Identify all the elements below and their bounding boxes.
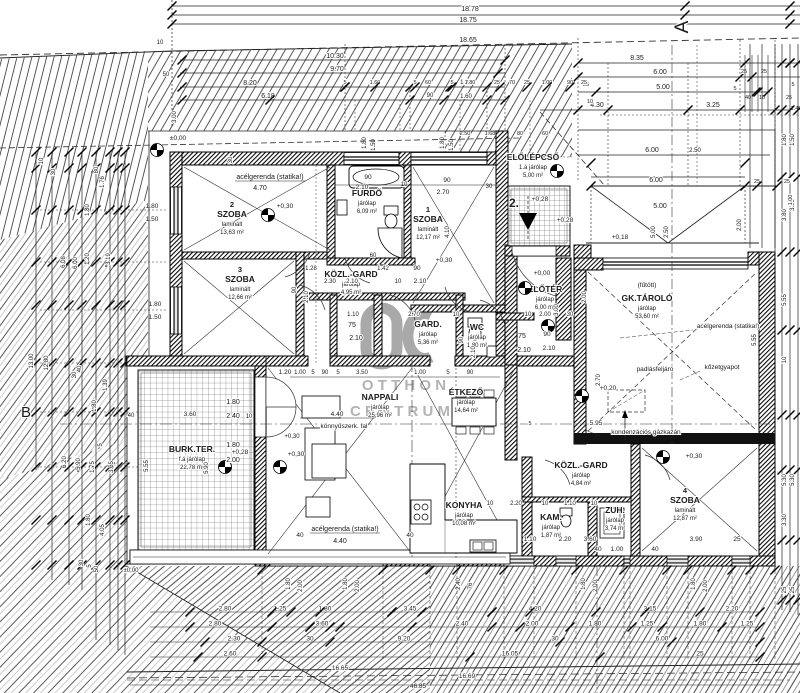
svg-text:1.76: 1.76 — [100, 176, 106, 188]
svg-text:2.30: 2.30 — [228, 636, 241, 643]
wall west exterior — [170, 152, 182, 366]
gk dashed cross diagonals — [588, 272, 757, 431]
svg-text:22,78 m²: 22,78 m² — [180, 465, 204, 471]
bath wc — [384, 206, 398, 215]
svg-text:1.80: 1.80 — [149, 301, 162, 308]
svg-text:f.á járólap: f.á járólap — [179, 457, 206, 463]
svg-text:4.40: 4.40 — [333, 538, 347, 545]
svg-text:90: 90 — [443, 177, 451, 184]
door arc room2 — [285, 252, 310, 277]
wall pier top right — [487, 152, 508, 165]
svg-text:60: 60 — [425, 80, 431, 86]
svg-text:járólap: járólap — [456, 400, 476, 406]
svg-text:ÉTKEZŐ: ÉTKEZŐ — [449, 386, 484, 397]
svg-text:4.05: 4.05 — [100, 524, 106, 536]
wall gk ne pier — [748, 252, 775, 265]
svg-text:járólap: járólap — [454, 513, 474, 519]
svg-text:1.50: 1.50 — [449, 139, 455, 151]
survey marker 7 — [576, 390, 589, 403]
svg-text:1.39: 1.39 — [103, 379, 109, 391]
arrow padlasfeljaro — [624, 415, 626, 440]
svg-text:ZUH.: ZUH. — [605, 505, 625, 515]
svg-text:1.00: 1.00 — [611, 546, 624, 553]
svg-text:1.50: 1.50 — [371, 139, 377, 151]
svg-text:2.00: 2.00 — [226, 457, 240, 464]
svg-text:75: 75 — [518, 333, 526, 340]
svg-text:1.75: 1.75 — [90, 461, 96, 473]
svg-text:25: 25 — [733, 536, 741, 543]
svg-text:5: 5 — [791, 82, 794, 88]
svg-text:2.40: 2.40 — [226, 413, 240, 420]
svg-text:8.35: 8.35 — [630, 55, 644, 62]
svg-text:2.00: 2.00 — [526, 621, 539, 628]
svg-text:2.00: 2.00 — [298, 580, 304, 592]
svg-text:5.00: 5.00 — [656, 84, 670, 91]
svg-text:2.10: 2.10 — [543, 345, 556, 352]
svg-text:+0,18: +0,18 — [612, 234, 629, 241]
svg-text:80: 80 — [94, 166, 100, 173]
svg-text:2.30: 2.30 — [324, 279, 336, 285]
svg-text:kőzetgyapot: kőzetgyapot — [704, 364, 739, 371]
svg-text:2.: 2. — [509, 196, 519, 210]
svg-text:KONYHA: KONYHA — [446, 500, 483, 510]
svg-text:kondenzációs gázkazán: kondenzációs gázkazán — [611, 429, 681, 436]
window top room1 — [411, 153, 487, 165]
svg-text:25: 25 — [786, 95, 792, 101]
svg-text:2.00: 2.00 — [593, 580, 599, 592]
svg-text:A: A — [672, 20, 693, 33]
svg-text:25: 25 — [494, 80, 500, 86]
wc2 toilet — [468, 318, 482, 327]
svg-text:3.60: 3.60 — [584, 536, 597, 543]
room2 cross diagonals — [184, 167, 330, 250]
wall bath/room1 divider — [404, 165, 411, 265]
svg-text:3.80: 3.80 — [782, 209, 788, 221]
svg-text:12,17 m²: 12,17 m² — [416, 235, 440, 241]
svg-text:1.25: 1.25 — [741, 621, 754, 628]
svg-text:4.40: 4.40 — [331, 411, 344, 418]
wall kam/zuh divider — [588, 502, 597, 556]
svg-text:5.30: 5.30 — [790, 474, 796, 486]
wall gard north — [304, 293, 465, 300]
wall room1 south — [411, 305, 508, 312]
wall corridor south of eloter — [496, 313, 534, 320]
svg-text:ELŐLÉPCSŐ: ELŐLÉPCSŐ — [507, 151, 560, 162]
svg-text:10.30: 10.30 — [326, 53, 344, 60]
svg-text:járólap: járólap — [541, 525, 561, 531]
svg-text:25: 25 — [741, 69, 747, 75]
top dimension chain 18.78 / 18.75 — [172, 5, 800, 7]
svg-text:1.00: 1.00 — [294, 370, 306, 376]
svg-text:járólap: járólap — [637, 306, 657, 312]
wall gard west — [374, 295, 382, 366]
terrace sw pier — [130, 550, 142, 564]
svg-text:1.80: 1.80 — [465, 80, 476, 86]
svg-text:3.60: 3.60 — [184, 411, 197, 418]
svg-text:16.69: 16.69 — [459, 673, 476, 680]
svg-text:SZOBA: SZOBA — [217, 209, 247, 219]
svg-text:járólap: járólap — [605, 518, 625, 524]
svg-text:2.60: 2.60 — [224, 651, 237, 658]
svg-text:90: 90 — [427, 93, 434, 99]
svg-text:NAPPALI: NAPPALI — [362, 392, 399, 402]
svg-text:KAM.: KAM. — [540, 512, 562, 522]
bottom dimension rows — [150, 611, 760, 613]
svg-text:1.80: 1.80 — [146, 203, 159, 210]
svg-text:30: 30 — [567, 312, 574, 318]
svg-text:1.60: 1.60 — [460, 94, 472, 100]
bath sink — [337, 200, 347, 215]
svg-text:5: 5 — [528, 421, 531, 427]
wall gk south solid — [574, 433, 775, 444]
svg-text:3.00: 3.00 — [554, 304, 560, 316]
svg-text:5,00 m²: 5,00 m² — [523, 173, 543, 179]
svg-text:acélgerenda (statika!): acélgerenda (statika!) — [311, 526, 378, 533]
svg-text:10: 10 — [542, 501, 549, 507]
wall east of room1 — [496, 131, 508, 365]
wall elotero east — [556, 258, 571, 340]
kitchen stove — [411, 500, 431, 524]
window top room2 — [344, 153, 399, 165]
svg-text:90: 90 — [459, 336, 465, 343]
terrace tiled BURK.TER — [138, 370, 254, 550]
plot boundary line bottom — [127, 664, 800, 672]
zuh shower tray — [600, 508, 624, 538]
svg-text:1.80: 1.80 — [92, 400, 98, 412]
svg-text:+0,30: +0,30 — [686, 453, 703, 460]
survey marker 1 — [262, 209, 275, 222]
wall room2 east / bath west — [327, 165, 335, 259]
svg-text:2.10: 2.10 — [414, 278, 427, 285]
svg-text:5.00: 5.00 — [651, 226, 657, 238]
door opening terrace-nappali — [255, 377, 266, 437]
svg-text:25: 25 — [784, 179, 790, 185]
svg-text:1.42: 1.42 — [377, 266, 389, 272]
svg-text:4,95 m²: 4,95 m² — [341, 290, 361, 296]
svg-text:40: 40 — [296, 532, 304, 539]
svg-text:5.95: 5.95 — [590, 420, 603, 427]
svg-text:10: 10 — [157, 40, 164, 46]
svg-text:12.80: 12.80 — [44, 355, 50, 371]
extension lines below south wall — [261, 566, 263, 660]
svg-text:1.00: 1.00 — [414, 370, 426, 376]
top band extra small dims — [578, 62, 800, 64]
svg-text:2.20: 2.20 — [559, 536, 572, 543]
konyha axis vertical — [455, 360, 457, 560]
terrain hatch bottom band right — [430, 566, 800, 693]
porch strip south of terrace — [130, 550, 510, 564]
room1 cross diagonals — [413, 167, 494, 303]
terrace outer boundary — [127, 356, 266, 564]
svg-text:1.20: 1.20 — [85, 253, 91, 265]
etkezo table — [452, 398, 496, 426]
svg-text:2.10: 2.10 — [346, 279, 358, 285]
svg-text:6.20: 6.20 — [62, 456, 68, 468]
svg-text:1.50: 1.50 — [146, 216, 159, 223]
door opening entrance — [512, 245, 556, 256]
svg-text:4,84 m²: 4,84 m² — [571, 481, 591, 487]
svg-text:50: 50 — [94, 565, 100, 572]
svg-text:+0,30: +0,30 — [284, 434, 300, 440]
bath shower arc — [378, 228, 402, 258]
svg-text:18.78: 18.78 — [461, 6, 479, 13]
svg-text:10: 10 — [487, 501, 494, 507]
svg-text:14,64 m²: 14,64 m² — [454, 408, 478, 414]
svg-text:90: 90 — [292, 286, 298, 293]
svg-text:40: 40 — [77, 365, 83, 372]
svg-text:75: 75 — [348, 322, 356, 329]
svg-text:25: 25 — [790, 586, 796, 593]
svg-text:GK.TÁROLÓ: GK.TÁROLÓ — [622, 292, 673, 303]
svg-text:4.10: 4.10 — [445, 226, 451, 238]
svg-text:5.00: 5.00 — [653, 203, 667, 210]
svg-text:40: 40 — [651, 546, 659, 553]
svg-text:25: 25 — [696, 651, 704, 658]
svg-text:1: 1 — [426, 205, 430, 214]
svg-text:1.10: 1.10 — [524, 536, 537, 543]
svg-text:4.70: 4.70 — [253, 185, 267, 192]
svg-text:2.40: 2.40 — [456, 621, 469, 628]
svg-text:2.00: 2.00 — [355, 580, 361, 592]
svg-text:10: 10 — [395, 279, 402, 285]
svg-text:90: 90 — [413, 265, 421, 272]
survey marker 2 — [551, 165, 564, 178]
garage door opening — [603, 258, 748, 269]
survey marker 6 — [657, 451, 670, 464]
nappali axis dashdot — [60, 423, 770, 425]
svg-text:1.80: 1.80 — [362, 137, 368, 149]
svg-text:1.10: 1.10 — [347, 312, 359, 318]
svg-text:12,87 m²: 12,87 m² — [673, 516, 697, 522]
survey marker 3 — [542, 320, 555, 333]
nappali axis vertical — [411, 360, 413, 560]
svg-text:1.80: 1.80 — [343, 578, 349, 590]
svg-text:40: 40 — [128, 413, 135, 419]
svg-text:1.80: 1.80 — [589, 621, 602, 628]
svg-text:±0,00: ±0,00 — [124, 568, 140, 574]
svg-text:90: 90 — [467, 370, 474, 376]
svg-text:járólap: járólap — [467, 335, 487, 341]
svg-text:1.80: 1.80 — [694, 621, 707, 628]
wall south exterior — [255, 556, 775, 566]
svg-text:40: 40 — [406, 532, 414, 539]
svg-text:6.00: 6.00 — [645, 147, 659, 154]
terrain hatch left plot area upper — [0, 51, 148, 240]
wall sw wing konyha east — [505, 365, 517, 460]
svg-text:SZOBA: SZOBA — [225, 274, 255, 284]
window west room2 — [171, 187, 182, 234]
svg-text:laminált: laminált — [230, 287, 251, 293]
svg-text:+0,30: +0,30 — [288, 451, 305, 458]
door arc entrance — [512, 252, 556, 296]
svg-text:3.60: 3.60 — [316, 621, 329, 628]
svg-text:2.80: 2.80 — [209, 621, 222, 628]
svg-text:2.00: 2.00 — [737, 219, 743, 231]
svg-text:3.30: 3.30 — [782, 514, 788, 526]
door arc terrace double — [266, 377, 296, 407]
svg-text:3.19: 3.19 — [106, 253, 112, 265]
svg-text:1,80 m²: 1,80 m² — [467, 343, 487, 349]
wall terrace/nappali vertical — [255, 366, 266, 556]
room3 cross diagonals — [184, 261, 294, 354]
wall kam north — [522, 497, 640, 502]
elolepcso tiled steps — [508, 186, 570, 246]
svg-text:járólap: járólap — [357, 201, 377, 207]
wall room2/room3 divider — [182, 252, 333, 259]
svg-text:1.80: 1.80 — [440, 137, 446, 149]
svg-text:1.80: 1.80 — [226, 442, 240, 449]
plot outline around building — [148, 130, 503, 132]
svg-text:1.68: 1.68 — [485, 131, 496, 137]
svg-text:1.00: 1.00 — [788, 195, 794, 206]
zuh wc — [560, 508, 572, 516]
svg-text:3.65: 3.65 — [109, 461, 115, 473]
svg-text:2.00: 2.00 — [582, 291, 588, 303]
top band dimension rows 10.30/9.70/8.20/6.18 — [180, 59, 505, 61]
svg-text:2.10: 2.10 — [349, 335, 363, 342]
svg-text:1.50: 1.50 — [790, 134, 796, 146]
svg-text:+0,30: +0,30 — [277, 203, 294, 210]
svg-text:10: 10 — [782, 356, 788, 363]
svg-text:laminált: laminált — [675, 508, 696, 514]
wall middle horizontal 2 — [330, 356, 430, 366]
wall entrance top — [505, 245, 570, 256]
door arc gard — [390, 295, 415, 320]
dashed diagonal to carport — [540, 112, 605, 186]
svg-text:1.80: 1.80 — [286, 578, 292, 590]
svg-text:3.25: 3.25 — [706, 102, 720, 109]
svg-text:46.85: 46.85 — [410, 683, 427, 690]
svg-text:6,09 m²: 6,09 m² — [357, 209, 377, 215]
svg-text:1.28: 1.28 — [305, 266, 317, 272]
svg-text:25: 25 — [782, 586, 788, 593]
svg-text:5.90: 5.90 — [204, 462, 210, 474]
svg-text:40: 40 — [594, 546, 602, 553]
wall gk west — [574, 258, 586, 444]
terrain hatch bottom band left — [127, 566, 430, 693]
svg-text:2.00: 2.00 — [539, 312, 551, 318]
terrain hatch left plot area middle — [0, 200, 148, 480]
svg-text:+0,28: +0,28 — [557, 217, 574, 224]
svg-text:30: 30 — [79, 559, 85, 566]
svg-text:30: 30 — [551, 636, 559, 643]
svg-text:1.25: 1.25 — [641, 621, 654, 628]
door arc room3 — [300, 285, 325, 310]
svg-text:18.75: 18.75 — [459, 17, 477, 24]
plot boundary dashed line top — [0, 51, 172, 58]
svg-text:10,08 m²: 10,08 m² — [452, 521, 476, 527]
svg-text:18.65: 18.65 — [459, 37, 477, 44]
svg-text:6.08: 6.08 — [61, 256, 67, 268]
svg-text:1.50: 1.50 — [149, 314, 162, 321]
wall long middle horizontal — [126, 356, 308, 366]
svg-text:padlásfeljáró: padlásfeljáró — [637, 366, 674, 373]
svg-text:5.30: 5.30 — [782, 474, 788, 486]
svg-text:3: 3 — [238, 265, 242, 274]
svg-text:BURK.TER.: BURK.TER. — [169, 444, 215, 454]
right vertical dimension cluster — [749, 44, 751, 248]
svg-text:10: 10 — [525, 312, 532, 318]
svg-text:3.45: 3.45 — [404, 606, 417, 613]
svg-text:16.65: 16.65 — [332, 665, 349, 672]
svg-text:C E N T R U M: C E N T R U M — [350, 403, 450, 420]
svg-text:SZOBA: SZOBA — [413, 214, 443, 224]
wall gard/wc divider — [456, 295, 463, 366]
svg-text:2.50: 2.50 — [460, 131, 471, 137]
svg-text:1.10: 1.10 — [564, 501, 576, 507]
svg-text:13.00: 13.00 — [29, 353, 35, 369]
sofa set nappali — [302, 396, 340, 418]
bathtub — [349, 166, 404, 188]
svg-text:3.90: 3.90 — [690, 536, 703, 543]
svg-text:3.00: 3.00 — [172, 111, 178, 123]
svg-text:1.20: 1.20 — [279, 369, 292, 376]
carport front area with V lines — [591, 185, 777, 187]
door arc room1 — [445, 287, 470, 312]
wall gk north pier — [574, 258, 603, 270]
svg-text:53,60 m²: 53,60 m² — [635, 314, 659, 320]
door arc bath — [345, 258, 370, 283]
svg-text:GARD.: GARD. — [414, 319, 441, 329]
kitchen counter — [410, 464, 517, 553]
svg-text:6.00: 6.00 — [73, 257, 79, 269]
svg-text:5.90: 5.90 — [76, 458, 82, 470]
svg-text:2.50: 2.50 — [689, 148, 701, 154]
svg-text:9.20: 9.20 — [398, 636, 411, 643]
svg-text:2.50: 2.50 — [664, 226, 670, 238]
svg-text:járólap: járólap — [418, 332, 438, 338]
svg-text:10: 10 — [453, 312, 460, 318]
svg-text:(fűtött): (fűtött) — [638, 282, 657, 289]
svg-text:6,00 m²: 6,00 m² — [535, 305, 555, 311]
svg-text:1.80: 1.80 — [85, 204, 91, 216]
svg-text:30: 30 — [72, 371, 78, 378]
svg-text:5.55: 5.55 — [782, 294, 788, 306]
svg-text:80: 80 — [517, 131, 523, 137]
top-right dimension rows 8.35/6.00/5.00/4.30/3.25 — [744, 55, 746, 112]
svg-text:1.á járólap: 1.á járólap — [519, 165, 548, 171]
svg-text:60: 60 — [370, 253, 377, 259]
wall corridor west — [330, 295, 337, 366]
svg-text:2.10: 2.10 — [304, 291, 310, 303]
svg-text:30: 30 — [51, 168, 57, 175]
svg-text:ELŐTÉR: ELŐTÉR — [528, 283, 562, 294]
svg-text:70: 70 — [509, 80, 515, 86]
wall pier top — [399, 152, 411, 165]
svg-text:12,66 m²: 12,66 m² — [228, 295, 252, 301]
survey marker 4 — [219, 461, 232, 474]
svg-text:16.05: 16.05 — [502, 651, 519, 658]
svg-text:2.10: 2.10 — [471, 346, 477, 358]
carport pillar left — [574, 245, 591, 258]
svg-text:2.00: 2.00 — [703, 580, 709, 592]
windows south wall — [270, 556, 383, 566]
wall bath south — [327, 258, 415, 265]
etkezo-konyha cross diagonals — [414, 368, 515, 553]
svg-text:5.55: 5.55 — [752, 334, 758, 346]
svg-text:acélgerenda (statika!): acélgerenda (statika!) — [697, 323, 760, 330]
svg-text:10: 10 — [587, 99, 593, 105]
svg-text:KÖZL.-GARD: KÖZL.-GARD — [554, 460, 607, 470]
svg-text:acélgerenda (statika!): acélgerenda (statika!) — [236, 174, 303, 181]
wall elotero west — [505, 245, 517, 365]
nappali cross diagonals — [268, 368, 412, 554]
svg-text:3,74 m²: 3,74 m² — [605, 526, 625, 532]
svg-text:±0,00: ±0,00 — [170, 135, 187, 142]
svg-text:8.20: 8.20 — [243, 80, 257, 87]
svg-text:76: 76 — [468, 582, 474, 589]
svg-text:6.00: 6.00 — [653, 69, 667, 76]
